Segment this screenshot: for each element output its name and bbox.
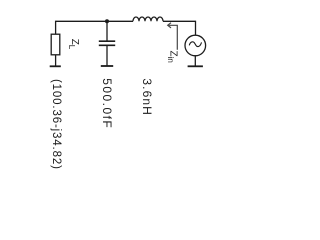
Zin arrow (168, 25, 178, 49)
Zin arrowhead (168, 23, 171, 28)
svg-text:500.0fF: 500.0fF (100, 78, 114, 129)
inductor L1 coil (133, 17, 163, 21)
wire capacitor top lead (106, 21, 108, 41)
capacitor C1 bottom plate (99, 44, 115, 46)
capacitor ground terminal (101, 65, 113, 67)
wire source top lead (195, 21, 197, 36)
wire top-left horizontal segment (56, 20, 133, 22)
svg-text:ZL: ZL (67, 39, 80, 50)
wire resistor bottom lead (55, 55, 57, 67)
resistor ZL body (51, 34, 60, 55)
svg-text:Zin: Zin (166, 51, 179, 63)
svg-text:(100.36-j34.82): (100.36-j34.82) (50, 79, 62, 170)
capacitor C1 top plate (99, 40, 115, 42)
wire left vertical to resistor (55, 21, 57, 35)
wire source bottom lead (194, 55, 196, 66)
source ground terminal (188, 65, 203, 67)
AC source sine symbol (189, 42, 201, 47)
node junction dot (105, 19, 109, 23)
AC source circle (185, 35, 206, 56)
svg-text:3.6nH: 3.6nH (140, 78, 154, 116)
wire capacitor bottom lead (106, 45, 108, 66)
wire top-right horizontal segment (163, 20, 196, 22)
resistor ground terminal (50, 65, 61, 67)
